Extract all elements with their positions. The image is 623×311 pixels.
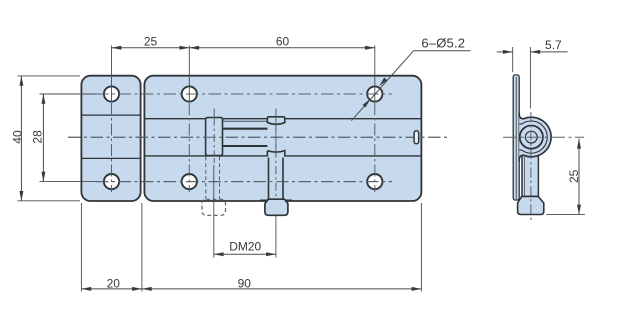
keeper plate lower line	[81, 157, 140, 159]
side knob	[518, 196, 544, 214]
guide left cap	[206, 118, 223, 156]
handle post bottom block	[267, 151, 284, 199]
leader 6-d5.2 horizontal	[414, 50, 471, 52]
arrow 5.7 left	[503, 50, 513, 54]
main plate lower line	[144, 155, 421, 157]
hole A2 bottom-left	[104, 174, 119, 189]
main bolt plate	[144, 76, 421, 201]
handle post top block	[267, 117, 284, 125]
dim 20 line	[81, 288, 141, 290]
centerline hole column 1	[111, 103, 113, 192]
svg-text:60: 60	[276, 35, 290, 49]
arrow 90 right	[412, 287, 422, 291]
dim 28 line	[42, 94, 44, 182]
svg-text:40: 40	[11, 130, 25, 144]
dim 60 line	[189, 47, 374, 49]
svg-text:6–Ø5.2: 6–Ø5.2	[421, 36, 465, 51]
centerline left cap	[213, 109, 215, 164]
side rod below barrel	[522, 150, 538, 197]
side horizontal centerline	[503, 136, 584, 138]
centerline hole row top	[96, 93, 392, 95]
centerline handle post	[275, 109, 277, 200]
dim DM20 extension lines	[213, 165, 215, 258]
dim 90 line	[142, 288, 422, 290]
side vertical centerline	[530, 112, 532, 220]
dim 25 line	[112, 47, 190, 49]
plate bottom edge over bar	[260, 199, 292, 201]
leader 6-d5.2 diagonal	[351, 51, 413, 121]
arrow 90 left	[142, 287, 152, 291]
centerline hole row bottom	[96, 181, 392, 183]
centerline hole column 3	[374, 103, 376, 192]
arrow 25 right	[180, 46, 190, 50]
dim 25 side bottom extension	[546, 213, 585, 215]
arrow 25 left	[112, 46, 122, 50]
barrel flange outer edge	[519, 113, 551, 162]
bolt top bar thick edge	[223, 128, 268, 130]
arrow 40 top	[19, 76, 23, 86]
arrow 60 left	[189, 46, 199, 50]
centerline overlay through cap (vertical)	[213, 118, 215, 156]
arrow 28 top	[41, 94, 45, 104]
arrow 20 left	[81, 287, 91, 291]
arrow 60 right	[365, 46, 375, 50]
svg-text:28: 28	[31, 130, 45, 144]
hole C2	[367, 174, 382, 189]
dim 40 extension lines	[18, 75, 81, 77]
side rod end line	[522, 195, 538, 197]
svg-text:DM20: DM20	[229, 240, 261, 254]
arrow 25side bottom	[577, 205, 581, 215]
hidden bar edge left (dashed)	[205, 157, 207, 200]
centerline overlay through post (vertical)	[275, 117, 277, 199]
hole C1	[367, 86, 382, 101]
hole A1 top-left	[104, 86, 119, 101]
arrow 40 bottom	[19, 191, 23, 201]
bolt bottom bar thick edge	[223, 145, 268, 147]
arrow leader lower	[362, 98, 371, 108]
dim 25 extension lines	[111, 46, 113, 102]
arrow DM20 right	[266, 252, 276, 256]
side rod inner line left	[524, 157, 526, 196]
hidden knob (retracted position, dashed)	[202, 199, 226, 215]
arrow DM20 left	[214, 252, 224, 256]
side plate strip	[513, 75, 519, 200]
centerline main axis	[68, 136, 448, 138]
arrow 20 right	[132, 287, 142, 291]
side strip inner line	[515, 77, 517, 199]
svg-text:25: 25	[144, 35, 158, 49]
barrel flange inner edge	[519, 121, 547, 153]
arrow 5.7 right	[530, 50, 540, 54]
dim 28 extension lines	[40, 93, 97, 95]
svg-text:5.7: 5.7	[545, 38, 562, 52]
dim DM20 line	[214, 253, 276, 255]
hidden bar edge right (dashed)	[219, 157, 221, 200]
svg-text:90: 90	[238, 276, 252, 290]
dim 20/90 extension lines	[80, 203, 82, 292]
arrow 28 bottom	[41, 172, 45, 182]
svg-text:20: 20	[107, 276, 121, 290]
arrow 25side top	[577, 139, 581, 149]
left keeper plate	[81, 76, 140, 201]
slot at right edge of main plate	[414, 131, 419, 144]
hole B2	[182, 174, 197, 189]
dim 5.7 line with outside tails	[497, 51, 513, 53]
keeper plate upper line	[81, 114, 140, 116]
knob (plan view)	[265, 199, 288, 215]
dim 25 side line	[578, 139, 580, 215]
svg-text:25: 25	[567, 169, 581, 183]
barrel inner circle	[525, 131, 537, 143]
handle bar	[267, 151, 283, 199]
hole B1	[182, 86, 197, 101]
bolt top bar thin edge	[223, 120, 268, 122]
dim 5.7 extension lines	[512, 47, 514, 72]
dim 40 line	[20, 76, 22, 201]
barrel outer circle	[520, 126, 543, 149]
arrow leader upper	[378, 78, 387, 88]
centerline overlay main axis	[68, 136, 448, 138]
main plate upper line	[144, 118, 421, 120]
centerline overlay bottom row	[96, 181, 392, 183]
centerline hole column 2	[188, 103, 190, 192]
barrel flange (wrapped sheet)	[519, 113, 551, 162]
